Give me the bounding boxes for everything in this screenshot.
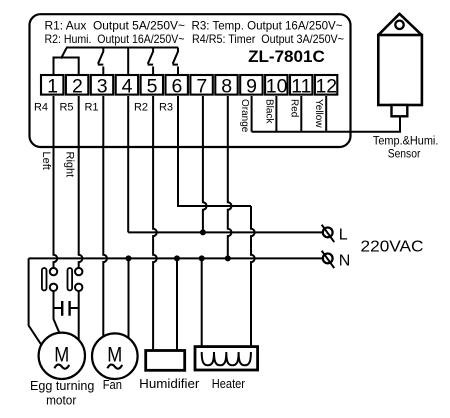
svg-text:11: 11 [291, 75, 311, 97]
svg-text:motor: motor [46, 393, 77, 408]
svg-text:Orange: Orange [239, 99, 250, 133]
svg-text:R5: R5 [59, 102, 73, 114]
svg-text:ZL-7801C: ZL-7801C [248, 47, 325, 66]
svg-text:M: M [107, 342, 122, 366]
svg-text:R3: Temp. Output 16A/250V~: R3: Temp. Output 16A/250V~ [192, 19, 343, 33]
svg-text:L: L [339, 226, 348, 243]
svg-text:7: 7 [196, 75, 207, 97]
svg-text:220VAC: 220VAC [361, 239, 424, 256]
svg-text:R2: R2 [134, 102, 148, 114]
svg-text:6: 6 [171, 75, 182, 97]
svg-text:N: N [339, 252, 351, 269]
svg-text:Left: Left [40, 152, 52, 170]
svg-text:2: 2 [72, 75, 83, 97]
svg-text:R1: R1 [84, 102, 98, 114]
svg-text:R2: Humi. Output 16A/250V~: R2: Humi. Output 16A/250V~ [45, 32, 185, 46]
svg-text:1: 1 [47, 75, 58, 97]
svg-text:Yellow: Yellow [313, 99, 324, 128]
svg-text:Right: Right [64, 152, 76, 178]
svg-text:4: 4 [122, 75, 133, 97]
svg-text:Red: Red [288, 99, 299, 117]
svg-text:Humidifier: Humidifier [139, 376, 200, 391]
svg-text:3: 3 [97, 75, 108, 97]
svg-text:Sensor: Sensor [388, 146, 421, 160]
svg-text:R4/R5: Timer Output 3A/250V~: R4/R5: Timer Output 3A/250V~ [192, 32, 344, 46]
svg-text:Heater: Heater [212, 376, 246, 391]
svg-text:M: M [54, 342, 69, 366]
svg-text:R3: R3 [159, 102, 173, 114]
svg-text:Black: Black [264, 99, 275, 124]
svg-text:Egg turning: Egg turning [30, 378, 94, 393]
svg-text:8: 8 [221, 75, 232, 97]
svg-text:Fan: Fan [103, 377, 122, 392]
svg-text:9: 9 [246, 75, 257, 97]
svg-text:5: 5 [147, 75, 158, 97]
svg-text:R1: Aux Output 5A/250V~: R1: Aux Output 5A/250V~ [45, 19, 186, 33]
svg-text:10: 10 [266, 75, 288, 97]
svg-text:12: 12 [315, 75, 337, 97]
svg-text:R4: R4 [34, 102, 48, 114]
